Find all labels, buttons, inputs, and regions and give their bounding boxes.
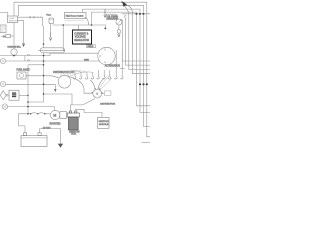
wire hbc corner curve [85, 18, 89, 25]
svg-text:IGNITION: IGNITION [99, 121, 109, 123]
indicator lamp [116, 19, 122, 25]
arrow left of oil label [104, 9, 106, 17]
bulb below lamp [118, 25, 120, 30]
top right arrow dark [122, 2, 150, 69]
junction dots [13, 2, 144, 115]
wire to charge-ind arrow [18, 21, 24, 44]
lamp L1 [2, 104, 7, 109]
left edge instrument box [0, 25, 6, 33]
wire coil right to module [76, 109, 102, 117]
regulator box U2 [73, 30, 92, 44]
spark plugs row [73, 50, 124, 79]
arrow dist ground [54, 89, 57, 92]
wire staircase v1 [122, 20, 150, 61]
wire light switch down to ammeter [13, 23, 15, 49]
harness loom symbol [40, 48, 64, 53]
wire gauge 2 line [6, 83, 56, 85]
svg-text:CHARGE IND.: CHARGE IND. [7, 46, 21, 49]
wire line D [92, 12, 151, 106]
arrow charge indicator [22, 43, 25, 46]
wire rotor stubs up [90, 78, 104, 89]
wire switch row [19, 113, 51, 115]
wire line C [83, 9, 151, 112]
svg-text:SWITCH: SWITCH [9, 20, 17, 22]
svg-text:ALTERNATOR: ALTERNATOR [105, 64, 120, 67]
starter solenoid [60, 112, 67, 119]
wire fuse row [18, 16, 43, 18]
gauge G1 [0, 58, 5, 63]
arrow into harness loom [49, 33, 51, 41]
wire fuse to arrow [50, 24, 52, 33]
wire battery to ground [40, 129, 61, 144]
ignition module box [98, 117, 110, 128]
ground G [58, 144, 63, 148]
plug wires fan [63, 70, 93, 76]
ignition coil [67, 113, 79, 117]
arrow below bulb [118, 33, 120, 37]
ammeter A1 [11, 49, 17, 55]
wire staircase v2 [124, 16, 150, 66]
svg-text:GEN: GEN [84, 59, 89, 61]
wire mid bus y25 [53, 25, 106, 28]
fuse F1 marks [29, 16, 43, 18]
starter M1 [51, 110, 60, 119]
wire connector to v14 [10, 35, 14, 37]
wire reg feed [78, 25, 80, 30]
distributor body circle [93, 89, 102, 98]
wire y94 to coil top [44, 94, 73, 105]
small arrow right [1, 35, 5, 37]
battery B1 [21, 136, 47, 147]
high beam control box [65, 12, 87, 18]
wire battery feed step [19, 114, 26, 133]
wire loom end stubs [38, 49, 64, 52]
wire dist ground drop [54, 84, 56, 89]
wire distributor right [102, 93, 105, 95]
horn H1 [0, 91, 6, 100]
switch arcs [31, 113, 45, 114]
svg-text:MODULE: MODULE [99, 124, 109, 126]
fuse cylinder [49, 18, 54, 24]
wire top bus A [14, 2, 150, 137]
oil label box [107, 14, 117, 20]
connector ticks y84 [139, 83, 148, 85]
wire fuel gage to distributor [26, 76, 59, 78]
fuel gage box [17, 72, 26, 79]
field label box [87, 45, 96, 48]
svg-text:REGULATOR: REGULATOR [74, 39, 89, 42]
svg-text:FIELD: FIELD [88, 46, 94, 48]
wire rotor curves to plugs [99, 75, 112, 90]
condenser box [105, 91, 111, 96]
svg-text:High Beam Control: High Beam Control [66, 14, 84, 17]
wire arc from bus B [126, 5, 150, 73]
svg-text:COIL: COIL [71, 134, 77, 136]
light switch SW1 [8, 16, 18, 23]
wire dot line right [122, 13, 151, 15]
wire x28 branch line [28, 64, 44, 66]
gauge G2 [0, 81, 5, 86]
wire hop bumps [27, 54, 29, 61]
alternator [98, 47, 115, 64]
flasher box [9, 90, 19, 100]
wire top bus B [18, 5, 150, 126]
wire long vertical bus [28, 17, 44, 102]
svg-text:DISTRIBUTOR: DISTRIBUTOR [100, 104, 115, 106]
wire flasher to vertical [19, 94, 28, 96]
wire vertical x28 [27, 65, 29, 114]
distributor stud marks [92, 88, 103, 93]
distributor cap [58, 76, 71, 89]
wire top-left stub [0, 13, 8, 17]
wire hbc under line [65, 19, 85, 21]
wire bus L [6, 56, 100, 61]
wire loom right drop [62, 25, 64, 51]
wire cap to distributor [68, 76, 93, 93]
wire bus U left [0, 53, 98, 55]
wire coil left terminal to rotor [70, 99, 94, 111]
svg-text:STARTER: STARTER [49, 122, 60, 125]
svg-text:M: M [53, 114, 56, 118]
bottom right stub [142, 141, 151, 143]
small connector box [6, 34, 10, 37]
wire lamp line to starter top [8, 107, 55, 111]
